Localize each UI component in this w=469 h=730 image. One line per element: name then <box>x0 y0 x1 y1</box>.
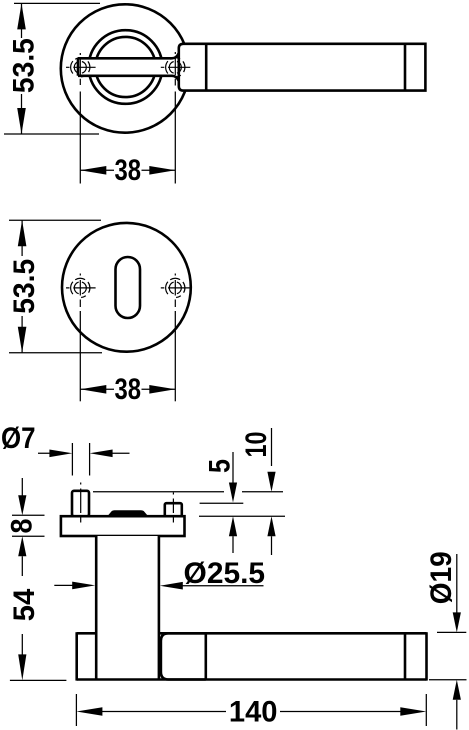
dimension 38 (middle figure) <box>80 311 175 406</box>
arrow pointing left <box>90 450 113 458</box>
svg-text:53.5: 53.5 <box>8 259 41 314</box>
svg-text:54: 54 <box>8 588 41 621</box>
extension line at grip bottom <box>10 679 67 681</box>
collar inner circle <box>95 37 155 97</box>
grip end cap joint line <box>404 633 407 679</box>
svg-text:Ø19: Ø19 <box>425 551 458 604</box>
lower arrow up <box>453 680 461 700</box>
arrow down <box>18 654 26 680</box>
lower arrow up <box>229 516 237 536</box>
svg-text:8: 8 <box>6 519 39 534</box>
keyhole slot <box>116 257 141 318</box>
dimension 54 <box>8 556 66 680</box>
svg-text:38: 38 <box>115 373 142 406</box>
arrow up <box>18 220 27 246</box>
dimension 53.5 (top figure) <box>4 3 100 134</box>
left post center line <box>80 483 82 523</box>
extension line at left post top level <box>93 491 283 493</box>
dimension line <box>80 388 175 390</box>
neck right edge <box>158 536 161 680</box>
extension line left <box>79 92 81 184</box>
grip ferrule rounded joint <box>161 633 206 679</box>
arrow left <box>80 166 106 175</box>
dimension line <box>102 711 401 713</box>
screw symbol top-left <box>66 53 96 85</box>
extension line right <box>425 694 427 726</box>
spindle hub profile <box>107 510 148 516</box>
arrow down <box>18 327 27 353</box>
spindle bridge bar fill <box>78 53 179 81</box>
grip left end edge <box>75 632 78 680</box>
dimension line segments <box>38 452 130 454</box>
extension line bottom <box>4 133 99 135</box>
dimension Ø25.5 <box>54 557 265 590</box>
extension line top <box>14 2 100 4</box>
svg-text:Ø7: Ø7 <box>1 422 36 455</box>
upper line + arrow down <box>456 554 458 613</box>
extension line left <box>79 311 81 401</box>
upper line + arrow down <box>232 452 234 483</box>
screw symbol mid-left <box>66 274 96 308</box>
rose plate <box>61 516 185 536</box>
arrow pointing right <box>49 450 72 458</box>
arrow left <box>80 385 106 394</box>
right post center line <box>172 493 174 523</box>
dimension 8 <box>6 478 45 556</box>
collar outer circle <box>89 30 163 104</box>
dimension Ø19 <box>425 551 467 729</box>
dimension Ø7 <box>1 422 130 476</box>
grip end cap line <box>404 44 407 90</box>
screw symbol mid-right <box>161 274 191 308</box>
extension line at plate top level <box>199 515 285 517</box>
svg-text:38: 38 <box>115 154 142 187</box>
rose circle <box>61 4 189 132</box>
arrow up <box>17 3 26 29</box>
leader arrow pointing left at neck <box>160 582 183 590</box>
upper line + arrow down <box>271 428 273 466</box>
extension line at post top <box>200 502 244 504</box>
extension line right <box>174 311 176 401</box>
left arrow pointing right at neck <box>54 584 74 586</box>
lower arrow up (shared with 54) <box>18 536 26 556</box>
extension lines <box>12 515 45 536</box>
grip bottom edge <box>77 678 427 681</box>
svg-text:5: 5 <box>204 459 237 473</box>
extension line bottom <box>429 679 467 681</box>
arrow right <box>149 385 175 394</box>
screw symbol top-right <box>161 52 191 86</box>
dimension 5 <box>200 452 244 553</box>
lower arrow up <box>267 516 275 536</box>
neck left edge <box>95 536 98 680</box>
boss/grip joint line <box>205 44 208 90</box>
extension line bottom <box>9 352 102 354</box>
dimension line <box>21 3 23 134</box>
svg-text:Ø25.5: Ø25.5 <box>184 557 266 590</box>
arrow right <box>400 707 426 716</box>
dimension line <box>80 169 175 171</box>
leader line under text <box>182 585 264 587</box>
arrow right <box>149 166 175 175</box>
extension line right <box>174 92 176 184</box>
extension line top <box>437 631 466 633</box>
grip top edge left segment <box>77 632 97 635</box>
svg-text:10: 10 <box>240 432 273 458</box>
dimension 38 (top figure) <box>80 92 175 188</box>
left mounting post <box>72 491 89 516</box>
dimension 10 <box>93 428 285 555</box>
arrow down <box>17 108 26 134</box>
dimension 53.5 (middle figure) <box>8 220 102 352</box>
spindle bridge bar outline <box>78 53 179 81</box>
upper line + arrow down <box>21 478 23 497</box>
grip fill <box>77 633 427 679</box>
grip top edge right segment <box>159 632 427 635</box>
dimension 140 <box>76 694 426 728</box>
dimension line <box>21 556 23 657</box>
extension lines <box>72 443 89 476</box>
dimension line <box>21 220 23 352</box>
escutcheon circle <box>62 223 191 352</box>
arrow left <box>76 707 102 716</box>
extension line left <box>75 694 77 726</box>
grip right end edge <box>425 632 428 680</box>
neck boss and grip body <box>179 44 426 91</box>
extension line top <box>9 219 101 221</box>
neck fill <box>96 536 159 680</box>
svg-text:140: 140 <box>229 695 278 728</box>
svg-text:53.5: 53.5 <box>8 38 41 93</box>
right mounting post <box>165 503 182 516</box>
